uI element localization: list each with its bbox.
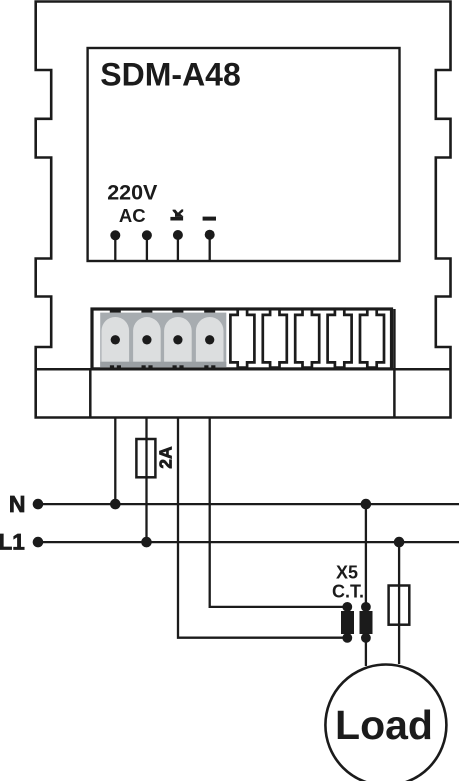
node L1-fuse xyxy=(141,537,152,548)
terminal block gray section xyxy=(100,309,226,370)
top tab 2 xyxy=(141,309,152,313)
node N-pin1 xyxy=(110,499,121,510)
top tab 4 xyxy=(204,309,215,313)
svg-text:220V: 220V xyxy=(107,180,158,204)
svg-text:2A: 2A xyxy=(155,446,175,469)
wire N drop through CT primary to load xyxy=(365,504,367,666)
terminal screw dot 2 xyxy=(142,335,151,344)
svg-text:L1: L1 xyxy=(0,530,25,555)
screw dome 4 xyxy=(196,317,224,362)
CT primary bottom dot xyxy=(361,633,371,643)
fuse F2 xyxy=(389,586,410,625)
CT secondary bottom dot xyxy=(342,633,352,643)
svg-text:X5: X5 xyxy=(336,563,358,583)
base divider right xyxy=(393,309,396,418)
wire pin3 to CT bottom xyxy=(178,417,347,638)
pin 1 stub xyxy=(114,235,116,262)
svg-text:AC: AC xyxy=(119,205,146,226)
svg-text:N: N xyxy=(9,491,26,517)
pin 1 dot xyxy=(110,230,120,240)
N endpoint dot xyxy=(33,499,44,510)
load circle xyxy=(325,665,446,781)
terminal label k xyxy=(170,209,183,220)
feet under cell 1 xyxy=(110,365,114,369)
CT primary top dot xyxy=(361,602,371,612)
fuse F1 xyxy=(136,439,155,477)
feet under cell 2 xyxy=(142,365,146,369)
CT secondary winding bar xyxy=(341,611,354,634)
pin 4 dot xyxy=(205,230,215,240)
svg-text:Load: Load xyxy=(335,702,433,748)
feet under cell 3 xyxy=(173,365,177,369)
top tab 3 xyxy=(172,309,183,313)
terminal screw dot 3 xyxy=(173,335,182,344)
pin 4 stub xyxy=(209,235,211,262)
CT primary winding bar xyxy=(360,611,373,634)
wire pin4 to CT top xyxy=(210,417,348,607)
L1 endpoint dot xyxy=(33,537,44,548)
wire L1 drop through fuse F2 to load xyxy=(398,542,400,664)
node N-CT drop xyxy=(361,499,372,510)
CT secondary top dot xyxy=(342,602,352,612)
gray bottom strip xyxy=(100,362,226,367)
connector slot 4 xyxy=(328,309,352,367)
pin 2 stub xyxy=(146,235,148,262)
top tab 1 xyxy=(110,309,121,313)
L1 line xyxy=(38,541,459,543)
display panel xyxy=(88,48,400,261)
feet under cell 4 xyxy=(204,365,208,369)
terminal screw dot 4 xyxy=(205,335,214,344)
pin 3 dot xyxy=(173,230,183,240)
node L1-load drop xyxy=(394,537,405,548)
terminal screw dot 1 xyxy=(111,335,120,344)
screw dome 2 xyxy=(133,317,161,362)
N line xyxy=(38,503,459,505)
screw dome 3 xyxy=(164,317,192,362)
device outline xyxy=(36,2,451,418)
pin 3 stub xyxy=(177,235,179,262)
svg-text:C.T.: C.T. xyxy=(332,582,364,602)
terminal block box xyxy=(92,309,392,369)
wire pin1 to N xyxy=(114,417,116,504)
svg-text:SDM-A48: SDM-A48 xyxy=(100,57,240,93)
connector slot 1 xyxy=(230,309,254,367)
pin 2 dot xyxy=(142,230,152,240)
base strip top line xyxy=(36,368,451,371)
connector slot 2 xyxy=(263,309,287,367)
wire pin2 to fuse to L1 xyxy=(145,417,147,542)
base divider left xyxy=(89,369,92,417)
screw dome 1 xyxy=(102,317,130,362)
connector slot 5 xyxy=(360,309,384,367)
connector slot 3 xyxy=(295,309,319,367)
terminal label l (bar) xyxy=(203,217,216,221)
